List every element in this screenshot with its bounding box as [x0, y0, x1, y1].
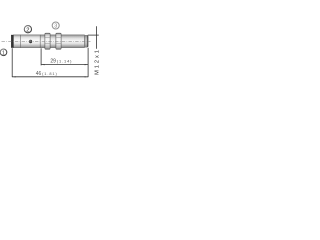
svg-text:29: 29	[50, 59, 56, 65]
svg-text:46: 46	[36, 71, 42, 77]
svg-text:1: 1	[2, 50, 5, 56]
svg-text:(1.14): (1.14)	[57, 59, 73, 64]
svg-text:2: 2	[26, 27, 29, 33]
svg-text:(1.81): (1.81)	[42, 71, 58, 76]
svg-text:M12x1: M12x1	[95, 48, 100, 75]
svg-text:3: 3	[54, 24, 57, 30]
